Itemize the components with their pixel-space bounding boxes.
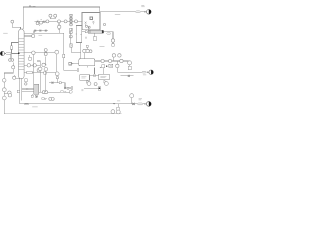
side box on leg: [25, 79, 28, 82]
instrument circle: [75, 20, 78, 23]
label: [81, 90, 83, 91]
pump left: [86, 80, 89, 83]
off-page connector right mid: [149, 70, 153, 74]
wire nozzle: [24, 52, 32, 54]
instrument circle: [94, 83, 97, 86]
D-box: [70, 90, 73, 93]
wire to drum top: [71, 47, 81, 52]
instrument circle pair above: [49, 14, 52, 17]
wire left gauge link: [16, 78, 20, 80]
wire drum outlet right y61: [95, 60, 129, 62]
wire left reflux branch: [12, 43, 19, 46]
instrument column stack: [70, 14, 72, 16]
capsule tag on line: [60, 91, 64, 93]
label tick top-left: [29, 5, 36, 6]
gauge pair: [37, 61, 40, 67]
wire to condenser feed: [82, 31, 85, 33]
wire riser x63.8 down: [64, 33, 77, 70]
wire drop x56.9: [56, 54, 58, 72]
valve manifold line: [34, 30, 48, 32]
off-page connector bottom right: [146, 102, 151, 107]
label under bottoms line: [32, 106, 38, 108]
wire feed line: [5, 53, 19, 55]
hexagon tag bottoms: [137, 103, 143, 105]
instrument below: [116, 64, 119, 67]
capsule tag: [41, 98, 44, 100]
instrument circle lower: [55, 72, 59, 76]
wire top header line: [23, 7, 146, 12]
gauge pair below feed: [10, 54, 12, 59]
instrument circle: [58, 20, 61, 23]
instrument circle: [109, 59, 112, 62]
instrument pair above: [112, 54, 115, 57]
arrowhead bottoms: [144, 103, 146, 105]
control valve capsule on riser: [63, 54, 65, 58]
instrument circle pair on line: [27, 64, 30, 67]
wire top nozzle to instrument: [24, 35, 32, 37]
instrument circle: [42, 63, 45, 66]
condenser dark cap: [102, 30, 104, 33]
wire to bottom header: [3, 100, 5, 114]
hatched label box: [27, 71, 32, 73]
instrument circle on line: [42, 91, 45, 94]
control skid rectangle: [82, 13, 100, 30]
pump small left of drum: [69, 62, 72, 65]
valve station on line: [52, 82, 54, 84]
instrument circle left chain: [12, 66, 15, 69]
label above hexagon: [139, 99, 142, 100]
small vessel right of column: [29, 57, 32, 60]
valve glyph inside skid: [85, 22, 87, 26]
instrument circle: [32, 51, 35, 54]
pump right: [104, 80, 108, 83]
label under manifold: [39, 34, 43, 36]
label C-100: [100, 46, 105, 48]
instrument circle: [40, 21, 43, 24]
small square inside skid: [90, 17, 93, 20]
wire instrument drop: [12, 23, 20, 30]
actuator T: [38, 25, 40, 27]
hexagon tag under outlet: [107, 33, 111, 34]
instrument circle: [64, 20, 67, 23]
instrument circle: [55, 50, 59, 54]
pump circles bottom: [111, 110, 115, 114]
instrument pair over drum: [86, 45, 88, 47]
valve box on branch: [10, 46, 13, 49]
small circle right of skid: [103, 23, 105, 25]
wire overhead vapor line y33.3: [24, 32, 64, 34]
instrument circle w stem: [37, 69, 40, 72]
hexagon tag fuel gas: [135, 11, 140, 13]
wire bottoms product y103.9: [20, 103, 146, 105]
feed nozzle dark dot: [18, 52, 20, 54]
wire filter feeds: [22, 88, 34, 90]
label under hexagon: [143, 74, 146, 76]
valve bowtie 1: [35, 30, 37, 32]
wire side line y72.4: [24, 71, 56, 73]
valve X on filter feed: [26, 88, 28, 90]
wire side line y65.3: [24, 64, 40, 66]
small KO vessel: [76, 26, 82, 43]
label text under line: [115, 14, 121, 16]
tube sheet ticks: [90, 30, 91, 33]
valve bowtie: [43, 21, 45, 23]
wire Y stems: [50, 17, 55, 18]
instrument PG top-left: [11, 20, 14, 23]
small tag box: [17, 90, 20, 93]
arrowhead: [144, 11, 146, 13]
drop to pumps: [118, 104, 120, 108]
instrument stack mid: [44, 49, 47, 52]
label text floating: [41, 97, 47, 100]
small box under: [112, 44, 115, 47]
check valve on bottoms: [113, 103, 115, 105]
wire between exchangers: [90, 75, 99, 77]
letdown station: [128, 66, 131, 69]
valve bowtie 2: [40, 30, 42, 32]
tick above shell: [88, 27, 90, 30]
instrument circle: [111, 39, 114, 42]
wire pump header: [84, 87, 98, 89]
instrument circle: [2, 79, 6, 83]
exchanger E-left: [80, 75, 90, 81]
instrument circle: [46, 20, 49, 23]
instrument circle on line: [120, 59, 123, 62]
dark junction dot: [106, 66, 107, 67]
capsule tag on bottoms: [24, 103, 29, 105]
valve bowtie 3: [45, 30, 47, 32]
instrument circle w stem right: [128, 61, 132, 65]
wire instrument air header y21.4: [35, 20, 83, 22]
instrument stack left of condenser: [70, 28, 72, 30]
filter vessel shaded: [34, 84, 39, 94]
instrument circle: [2, 96, 6, 100]
valve glyph left under shell: [85, 37, 87, 39]
instrument circle above line: [130, 94, 134, 98]
valve bowtie: [132, 103, 134, 105]
column trays: [19, 39, 25, 70]
reflux drum: [79, 59, 95, 66]
instrument circle: [32, 34, 35, 37]
arrowhead feed: [14, 53, 16, 54]
wire product line y72.2: [117, 71, 146, 73]
instrument circle: [2, 88, 6, 92]
wire drop to exchanger: [94, 68, 96, 75]
junction box w dot: [98, 87, 101, 91]
wire bottom header y113.6: [5, 113, 122, 115]
column T-100: [19, 29, 25, 79]
pot under condenser: [94, 33, 96, 36]
exchanger E-right: [99, 74, 110, 80]
condenser shell: [88, 30, 103, 33]
label T-100: [3, 32, 8, 34]
label text fuel gas: [141, 6, 144, 7]
arrowhead: [147, 71, 149, 73]
bottoms line from column boot (double leg): [19, 78, 21, 104]
hexagon tag: [142, 71, 147, 73]
X-box valve: [70, 44, 73, 47]
valve small circle: [56, 76, 58, 78]
valve glyph inside skid: [92, 21, 94, 24]
pump glyph inside skid: [85, 25, 87, 27]
boxes under filter: [31, 95, 33, 97]
mini row valves: [64, 87, 66, 89]
hexagon tag feed: [6, 53, 12, 55]
small box: [44, 72, 47, 75]
feed off-page connector: [0, 51, 4, 55]
small box: [102, 65, 105, 68]
instrument circle pair floating: [49, 97, 52, 100]
X-box: [109, 64, 113, 67]
wire reflux pump line y82.7: [49, 83, 65, 88]
riser from header: circle on stem: [58, 23, 60, 25]
valve box at manifold end: [77, 69, 79, 71]
wire left chain down: [3, 82, 5, 88]
wire riser to column top: [22, 7, 24, 31]
vert from box: [45, 56, 47, 64]
off-page connector top right: [147, 10, 152, 15]
wire verticals to distillate line: [33, 54, 35, 84]
condenser channel head: [85, 31, 87, 33]
wire distillate line y92.2: [37, 91, 70, 93]
wire condenser outlet: [104, 32, 113, 39]
wire drum bottom line y67.5: [86, 66, 88, 68]
instrument circle near column bottom: [13, 76, 16, 79]
instrument circle: [36, 22, 39, 25]
gauge pair: [4, 92, 8, 94]
instrument circle: [101, 59, 104, 62]
